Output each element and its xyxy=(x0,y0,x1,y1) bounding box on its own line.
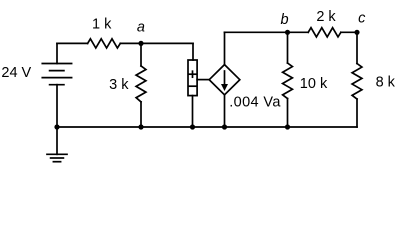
dependent-voltage box element xyxy=(188,60,197,96)
svg-text:a: a xyxy=(137,19,145,35)
node c xyxy=(354,30,359,35)
wire node c down to 8k xyxy=(356,32,358,63)
svg-text:2 k: 2 k xyxy=(316,9,336,25)
resistor R 2k xyxy=(308,28,341,37)
svg-text:24 V: 24 V xyxy=(1,65,31,81)
svg-text:10 k: 10 k xyxy=(300,76,328,92)
top-right rail to 2k xyxy=(225,31,309,33)
junction dot 3k bottom xyxy=(138,124,143,129)
resistor R 10k xyxy=(283,63,293,99)
junction dot 10k bottom xyxy=(285,124,290,129)
wire corner down to box top xyxy=(192,43,194,60)
wire from 1k to node a to corner xyxy=(120,42,193,44)
resistor R 3k xyxy=(136,66,146,102)
ground xyxy=(47,127,67,162)
battery plate short bottom xyxy=(50,84,64,86)
wire diamond bottom stub xyxy=(224,95,226,127)
wire 2k to node c xyxy=(341,31,357,33)
battery plate short xyxy=(50,70,64,72)
svg-text:3 k: 3 k xyxy=(109,77,129,93)
svg-text:.004 Va: .004 Va xyxy=(229,95,281,111)
resistor R 1k xyxy=(88,39,121,48)
wire box bottom stub xyxy=(192,96,194,127)
wire top-left rail from battery to 1k xyxy=(57,42,88,44)
svg-text:1 k: 1 k xyxy=(92,17,112,33)
resistor R 8k xyxy=(352,64,362,100)
wire 3k bottom xyxy=(140,102,142,127)
wire 8k bottom to rail corner xyxy=(356,99,358,127)
node b xyxy=(285,30,290,35)
minus mark in box xyxy=(189,85,195,87)
wire node a down to 3k xyxy=(140,43,142,66)
wire 10k bottom xyxy=(287,99,289,128)
wire node b down to 10k xyxy=(287,32,289,63)
junction dot box bottom xyxy=(190,124,195,129)
bottom rail xyxy=(57,126,357,128)
arrow in diamond xyxy=(221,71,228,91)
svg-text:b: b xyxy=(280,12,288,28)
svg-text:c: c xyxy=(358,10,366,26)
wire battery bottom stub xyxy=(56,85,58,127)
wire diamond top stub xyxy=(224,32,226,64)
svg-text:8 k: 8 k xyxy=(376,74,396,90)
battery plate long xyxy=(42,77,71,79)
plus mark in box xyxy=(189,71,195,77)
node a xyxy=(138,41,143,46)
voltage source 24 V battery stub top xyxy=(56,43,58,63)
junction dot diamond bottom xyxy=(222,124,227,129)
junction dot battery bottom xyxy=(54,124,59,129)
dependent current source diamond xyxy=(209,65,240,95)
wire link box to diamond xyxy=(197,79,209,81)
battery plate long top xyxy=(42,63,71,65)
